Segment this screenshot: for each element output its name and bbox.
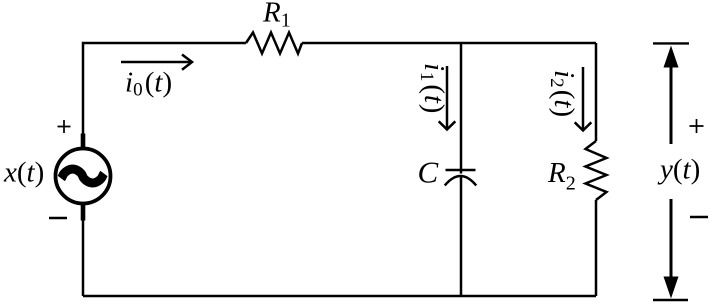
wire: left vertical from source bottom to bottom wire [82,205,85,296]
wire: capacitor branch upper lead (T junction at top wire) [460,43,463,174]
output minus sign [690,216,708,218]
svg-text:C: C [418,155,439,190]
current arrow i2 [582,67,585,129]
voltage source sine symbol [61,169,104,183]
output dimension top bar [653,42,689,44]
svg-text:y(t): y(t) [657,154,700,186]
wire: right vertical from top corner down to R2 [595,43,598,141]
svg-text:i2(t): i2(t) [546,70,580,117]
output dimension bottom bar [653,299,688,301]
voltage source top terminal stub [81,134,86,151]
wire: right vertical from R2 down to bottom corner [595,200,598,296]
wire: bottom horizontal [83,295,596,298]
output arrow down (head) [664,277,679,299]
wire: top-left horizontal segment from left branch to R1 [83,43,246,147]
output arrow up (shaft) [670,66,673,144]
capacitor C top plate [446,169,476,172]
voltage source plus polarity sign [58,120,71,133]
wire: capacitor branch lower lead to bottom wire [460,177,463,297]
wire: top horizontal from R1 to right corner [302,42,596,45]
svg-text:R1: R1 [262,0,291,32]
voltage source minus polarity sign [49,217,67,220]
resistor R1 [246,33,302,54]
voltage source bottom terminal stub [81,202,86,221]
output plus sign [690,119,704,133]
svg-text:i1(t): i1(t) [416,63,450,114]
current arrow i1 [446,66,449,128]
output arrow up (head) [664,46,679,68]
svg-text:R2: R2 [547,157,576,195]
resistor R2 [586,141,607,200]
output arrow down (shaft) [670,199,673,278]
capacitor C bottom plate (curved) [445,176,476,186]
svg-text:i0(t): i0(t) [125,67,172,101]
svg-text:x(t): x(t) [3,157,44,189]
current arrow i0 [121,61,191,64]
voltage source x(t) circle [56,149,111,204]
